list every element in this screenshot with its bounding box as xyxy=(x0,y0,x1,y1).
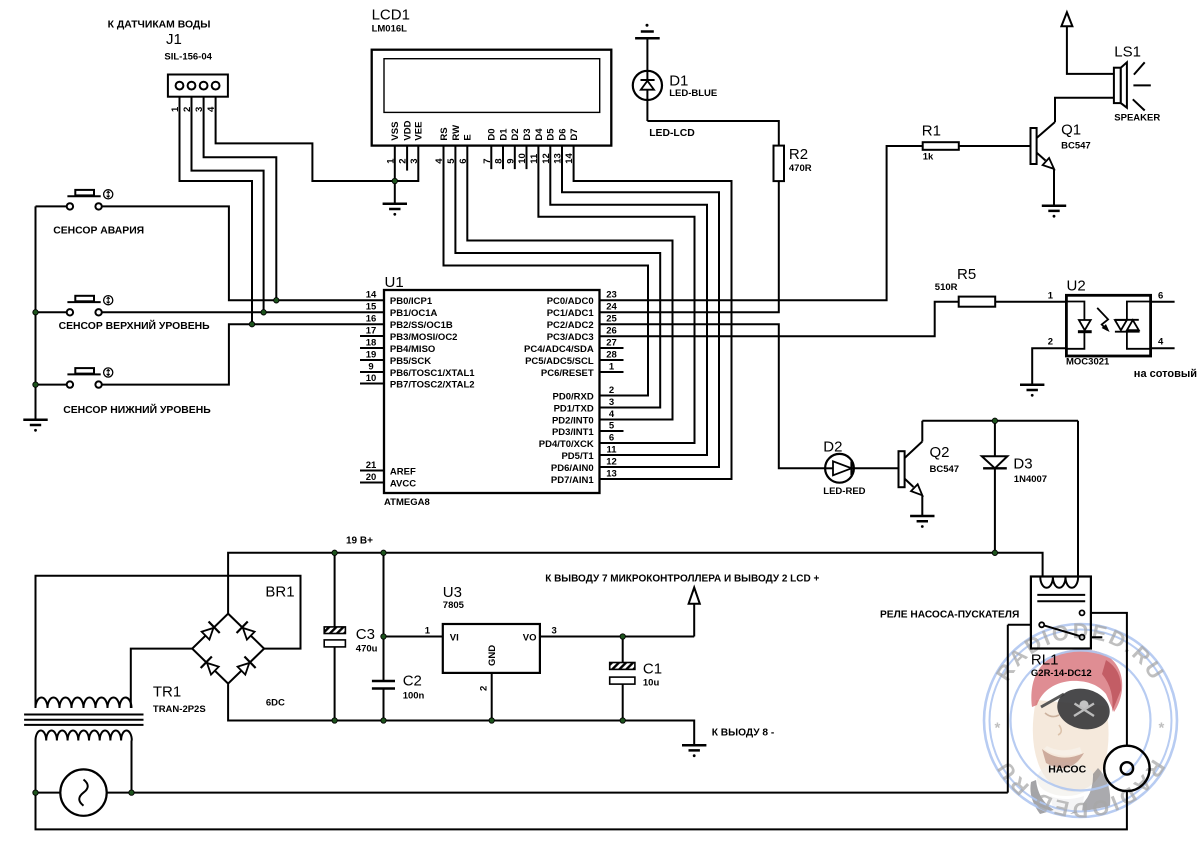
svg-text:4: 4 xyxy=(1158,337,1164,348)
svg-text:BR1: BR1 xyxy=(265,584,294,601)
svg-text:20: 20 xyxy=(366,472,377,483)
svg-text:18: 18 xyxy=(366,338,377,349)
svg-text:2: 2 xyxy=(398,159,409,164)
svg-text:16: 16 xyxy=(366,314,377,325)
svg-text:5: 5 xyxy=(609,421,615,432)
svg-text:C2: C2 xyxy=(403,673,422,690)
svg-text:СЕНСОР ВЕРХНИЙ УРОВЕНЬ: СЕНСОР ВЕРХНИЙ УРОВЕНЬ xyxy=(59,319,211,332)
svg-text:6: 6 xyxy=(1158,290,1163,301)
svg-text:D7: D7 xyxy=(569,128,580,140)
svg-text:U1: U1 xyxy=(385,274,404,291)
svg-text:LED-RED: LED-RED xyxy=(823,486,865,497)
svg-text:PC3/ADC3: PC3/ADC3 xyxy=(547,332,594,343)
svg-text:РЕЛЕ НАСОСА-ПУСКАТЕЛЯ: РЕЛЕ НАСОСА-ПУСКАТЕЛЯ xyxy=(880,610,1019,621)
svg-text:24: 24 xyxy=(606,302,617,313)
svg-text:3: 3 xyxy=(194,107,205,112)
svg-text:PC0/ADC0: PC0/ADC0 xyxy=(547,296,594,307)
svg-text:PB7/TOSC2/XTAL2: PB7/TOSC2/XTAL2 xyxy=(390,380,475,391)
svg-text:LED-LCD: LED-LCD xyxy=(649,128,695,139)
svg-text:J1: J1 xyxy=(166,31,182,48)
svg-text:D0: D0 xyxy=(487,128,498,140)
svg-text:PD1/TXD: PD1/TXD xyxy=(554,404,594,415)
svg-text:К ДАТЧИКАМ ВОДЫ: К ДАТЧИКАМ ВОДЫ xyxy=(108,20,211,31)
svg-text:D1: D1 xyxy=(669,73,688,90)
svg-text:AREF: AREF xyxy=(390,467,416,478)
svg-text:PB5/SCK: PB5/SCK xyxy=(390,356,431,367)
svg-text:26: 26 xyxy=(606,326,617,337)
svg-text:8: 8 xyxy=(494,159,505,164)
svg-text:RW: RW xyxy=(451,125,462,141)
svg-text:Q1: Q1 xyxy=(1061,122,1081,139)
svg-text:C1: C1 xyxy=(643,661,662,678)
svg-text:6: 6 xyxy=(609,433,614,444)
svg-text:10u: 10u xyxy=(643,678,660,689)
svg-text:BC547: BC547 xyxy=(930,464,960,475)
svg-text:2: 2 xyxy=(479,686,490,691)
svg-text:1: 1 xyxy=(425,626,431,637)
svg-text:2: 2 xyxy=(182,107,193,112)
svg-text:15: 15 xyxy=(366,302,377,313)
svg-text:D3: D3 xyxy=(522,128,533,140)
svg-text:D2: D2 xyxy=(823,439,842,456)
svg-text:23: 23 xyxy=(606,290,617,301)
svg-text:3: 3 xyxy=(609,397,614,408)
svg-text:PC1/ADC1: PC1/ADC1 xyxy=(547,308,595,319)
svg-text:MOC3021: MOC3021 xyxy=(1066,357,1110,368)
svg-text:PB3/MOSI/OC2: PB3/MOSI/OC2 xyxy=(390,332,458,343)
svg-text:VI: VI xyxy=(450,632,459,643)
svg-text:LED-BLUE: LED-BLUE xyxy=(669,88,717,99)
svg-text:AVCC: AVCC xyxy=(390,479,416,490)
svg-text:21: 21 xyxy=(366,460,377,471)
svg-text:LS1: LS1 xyxy=(1114,44,1141,61)
svg-text:PB1/OC1A: PB1/OC1A xyxy=(390,308,438,319)
svg-text:BC547: BC547 xyxy=(1061,140,1091,151)
svg-text:PD0/RXD: PD0/RXD xyxy=(553,392,594,403)
svg-text:ATMEGA8: ATMEGA8 xyxy=(384,497,430,508)
svg-text:11: 11 xyxy=(606,445,617,456)
svg-text:PC6/RESET: PC6/RESET xyxy=(541,368,594,379)
svg-text:D4: D4 xyxy=(534,128,545,141)
svg-text:R2: R2 xyxy=(789,146,808,163)
svg-text:PB2/SS/OC1B: PB2/SS/OC1B xyxy=(390,320,453,331)
svg-text:SPEAKER: SPEAKER xyxy=(1114,113,1160,124)
svg-text:PC5/ADC5/SCL: PC5/ADC5/SCL xyxy=(525,356,594,367)
svg-text:D2: D2 xyxy=(510,128,521,140)
svg-text:*: * xyxy=(995,720,1001,737)
svg-text:VO: VO xyxy=(523,632,537,643)
svg-text:3: 3 xyxy=(409,159,420,164)
svg-text:4: 4 xyxy=(206,106,217,112)
svg-text:SIL-156-04: SIL-156-04 xyxy=(164,52,212,63)
svg-text:VSS: VSS xyxy=(390,122,401,141)
svg-text:СЕНСОР НИЖНИЙ УРОВЕНЬ: СЕНСОР НИЖНИЙ УРОВЕНЬ xyxy=(63,403,211,416)
svg-text:1: 1 xyxy=(1048,290,1054,301)
svg-text:E: E xyxy=(463,134,474,140)
svg-text:12: 12 xyxy=(541,153,552,164)
svg-text:470R: 470R xyxy=(789,163,812,174)
svg-text:19 В+: 19 В+ xyxy=(346,536,373,547)
svg-text:1k: 1k xyxy=(923,152,934,163)
svg-text:17: 17 xyxy=(366,326,377,337)
svg-text:11: 11 xyxy=(529,153,540,164)
svg-text:6DC: 6DC xyxy=(266,698,285,709)
svg-text:LM016L: LM016L xyxy=(372,23,408,34)
svg-text:10: 10 xyxy=(366,373,377,384)
svg-text:D5: D5 xyxy=(546,128,557,141)
svg-text:28: 28 xyxy=(606,350,617,361)
svg-text:6: 6 xyxy=(458,159,469,164)
svg-text:7: 7 xyxy=(482,159,493,164)
svg-text:C3: C3 xyxy=(356,626,375,643)
svg-text:10: 10 xyxy=(517,153,528,164)
svg-text:PB6/TOSC1/XTAL1: PB6/TOSC1/XTAL1 xyxy=(390,368,475,379)
svg-text:К ВЫОДУ 8 -: К ВЫОДУ 8 - xyxy=(712,728,775,739)
svg-text:14: 14 xyxy=(366,290,377,301)
svg-text:TRAN-2P2S: TRAN-2P2S xyxy=(153,704,206,715)
svg-text:9: 9 xyxy=(368,362,373,373)
svg-text:К ВЫВОДУ 7 МИКРОКОНТРОЛЛЕРА И: К ВЫВОДУ 7 МИКРОКОНТРОЛЛЕРА И ВЫВОДУ 2 L… xyxy=(545,574,819,585)
svg-text:7805: 7805 xyxy=(443,600,465,611)
svg-text:3: 3 xyxy=(552,626,557,637)
svg-text:5: 5 xyxy=(446,158,457,164)
svg-text:14: 14 xyxy=(564,153,575,164)
svg-text:D6: D6 xyxy=(557,128,568,140)
svg-text:D3: D3 xyxy=(1013,456,1032,473)
svg-text:PD4/T0/XCK: PD4/T0/XCK xyxy=(539,439,594,450)
svg-text:13: 13 xyxy=(553,153,564,164)
svg-text:на сотовый: на сотовый xyxy=(1134,368,1197,380)
svg-text:25: 25 xyxy=(606,314,617,325)
svg-text:2: 2 xyxy=(609,385,614,396)
svg-text:27: 27 xyxy=(606,338,617,349)
svg-text:1N4007: 1N4007 xyxy=(1014,474,1047,485)
svg-text:RS: RS xyxy=(439,127,450,140)
svg-text:PD5/T1: PD5/T1 xyxy=(561,451,594,462)
svg-text:2: 2 xyxy=(1048,337,1053,348)
svg-text:PB0/ICP1: PB0/ICP1 xyxy=(390,296,433,307)
svg-text:PD6/AIN0: PD6/AIN0 xyxy=(551,463,594,474)
svg-text:9: 9 xyxy=(505,159,516,164)
svg-text:LCD1: LCD1 xyxy=(372,7,410,24)
svg-text:Q2: Q2 xyxy=(930,444,950,461)
svg-text:U2: U2 xyxy=(1067,278,1086,295)
svg-text:R1: R1 xyxy=(922,123,941,140)
svg-text:1: 1 xyxy=(385,158,396,164)
svg-text:1: 1 xyxy=(609,362,615,373)
svg-text:TR1: TR1 xyxy=(153,684,181,701)
svg-text:PD7/AIN1: PD7/AIN1 xyxy=(551,475,594,486)
svg-text:GND: GND xyxy=(487,645,498,666)
svg-text:510R: 510R xyxy=(935,282,958,293)
svg-text:VDD: VDD xyxy=(403,120,414,140)
svg-text:СЕНСОР АВАРИЯ: СЕНСОР АВАРИЯ xyxy=(53,226,144,237)
svg-text:PB4/MISO: PB4/MISO xyxy=(390,344,435,355)
svg-text:U3: U3 xyxy=(443,584,462,601)
svg-text:4: 4 xyxy=(609,409,615,420)
svg-text:1: 1 xyxy=(170,106,181,112)
svg-text:PC2/ADC2: PC2/ADC2 xyxy=(547,320,594,331)
svg-text:*: * xyxy=(1159,720,1165,737)
svg-text:R5: R5 xyxy=(957,266,976,283)
svg-text:13: 13 xyxy=(606,469,617,480)
svg-text:PD3/INT1: PD3/INT1 xyxy=(552,427,594,438)
svg-text:470u: 470u xyxy=(356,643,378,654)
svg-text:12: 12 xyxy=(606,457,617,468)
svg-text:PD2/INT0: PD2/INT0 xyxy=(552,416,594,427)
svg-text:19: 19 xyxy=(366,350,377,361)
svg-text:D1: D1 xyxy=(498,128,509,141)
svg-text:4: 4 xyxy=(434,158,445,164)
svg-text:VEE: VEE xyxy=(414,122,425,141)
svg-text:100n: 100n xyxy=(403,691,425,702)
svg-text:PC4/ADC4/SDA: PC4/ADC4/SDA xyxy=(524,344,594,355)
